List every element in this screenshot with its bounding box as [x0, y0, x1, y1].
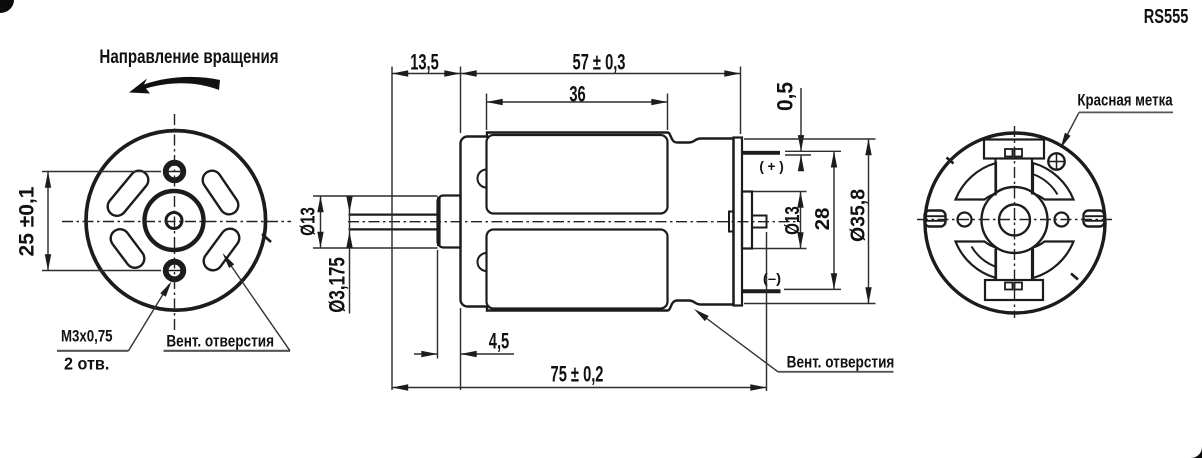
- svg-text:Вент. отверстия: Вент. отверстия: [787, 353, 895, 372]
- front bushing (4,5 flange): [438, 196, 461, 248]
- dimension Ø35,8 (body diameter): [744, 139, 876, 304]
- svg-text:M3x0,75: M3x0,75: [61, 327, 113, 346]
- rear view vertical centerline: [1014, 126, 1016, 318]
- vent slot upper-right: [212, 180, 229, 205]
- fan opening upper-right with spring arc: [1033, 163, 1074, 200]
- dimension Ø3,175 (shaft): [349, 202, 351, 314]
- svg-text:Ø13: Ø13: [781, 206, 804, 235]
- svg-text:( + ): ( + ): [759, 159, 783, 174]
- rear center hole: [999, 205, 1030, 236]
- fan opening upper-left: [956, 163, 997, 200]
- dimension 25 ±0,1: [42, 172, 161, 271]
- side view: motor body (middle): [349, 133, 781, 311]
- dimension 0,5 (terminal thickness): [785, 88, 841, 171]
- front view: motor face (left): [86, 131, 271, 311]
- svg-text:Ø35,8: Ø35,8: [847, 189, 870, 242]
- flat face lower rectangle: [487, 230, 668, 309]
- inner bearing bump at rear: [729, 212, 734, 232]
- dimension 36: [487, 94, 668, 131]
- dimension 75 ± 0,2: [392, 232, 767, 391]
- vent slot upper-left: [117, 180, 139, 207]
- svg-text:25 ±0,1: 25 ±0,1: [16, 186, 39, 256]
- rear endcap: [734, 138, 743, 306]
- svg-text:Направление вращения: Направление вращения: [99, 45, 278, 67]
- rim tick upper-left: [947, 158, 954, 164]
- top brush tab: [984, 140, 1044, 159]
- dimension 4,5: [414, 250, 514, 390]
- rim tick right: [262, 234, 271, 242]
- vent slot lower-left: [120, 239, 135, 259]
- rear view: motor endcap (right): [925, 133, 1106, 313]
- red mark circle: [1048, 153, 1064, 169]
- front view horizontal centerline: [62, 221, 291, 223]
- terminal tab left: [925, 211, 946, 227]
- front view boss circle: [145, 191, 204, 250]
- screw boss left: [958, 213, 972, 227]
- dimension Ø13 (rear boss): [753, 192, 807, 249]
- svg-text:Вент. отверстия: Вент. отверстия: [166, 332, 274, 351]
- flat face upper rectangle: [487, 135, 668, 214]
- mounting hole top: [166, 163, 184, 181]
- rear outer circle: [925, 133, 1105, 313]
- terminal (-): [741, 289, 781, 293]
- screw boss right: [1055, 213, 1069, 227]
- fan opening lower-right: [1033, 242, 1074, 279]
- dimension Ø13 (front bushing): [313, 196, 438, 248]
- svg-text:Красная метка: Красная метка: [1077, 91, 1173, 110]
- shaft: [349, 214, 438, 216]
- svg-text:RS555: RS555: [1144, 5, 1189, 28]
- dimension 13,5: [392, 67, 461, 391]
- rotation arrow (curved swoosh): [129, 77, 220, 94]
- dimension 57 ± 0,3: [461, 67, 741, 135]
- svg-text:Ø3,175: Ø3,175: [325, 257, 350, 313]
- bump on upper flat: [478, 170, 487, 188]
- svg-text:57 ± 0,3: 57 ± 0,3: [573, 50, 626, 75]
- front view shaft center hole: [166, 213, 182, 229]
- svg-text:4,5: 4,5: [489, 329, 509, 354]
- vent slot lower-right: [213, 238, 230, 261]
- motor can outline: [461, 133, 734, 311]
- svg-text:Ø13: Ø13: [296, 207, 319, 236]
- svg-text:(–): (–): [763, 272, 781, 287]
- fan opening lower-left with spring arc: [956, 242, 997, 279]
- svg-text:36: 36: [569, 82, 585, 107]
- brush bar vertical lines: [994, 159, 996, 196]
- dimension 28 (terminal spacing): [784, 151, 841, 289]
- rear bearing circle: [982, 187, 1048, 253]
- svg-text:28: 28: [811, 208, 834, 231]
- rear shaft stub: [752, 216, 767, 228]
- svg-text:75 ± 0,2: 75 ± 0,2: [551, 362, 604, 387]
- svg-text:13,5: 13,5: [410, 50, 439, 75]
- side view centerline: [348, 221, 800, 223]
- rim tick lower-right: [1071, 274, 1078, 280]
- front view vertical centerline: [174, 114, 176, 333]
- corner artifact bottom-right: [1191, 447, 1202, 458]
- leader to lower-right vent slot: [225, 257, 290, 351]
- terminal tab right: [1084, 211, 1105, 227]
- leader to red mark: [1063, 112, 1079, 143]
- front view outer circle: [86, 131, 266, 311]
- corner artifact top-left: [0, 0, 14, 13]
- svg-text:2 отв.: 2 отв.: [64, 354, 109, 374]
- bottom brush tab: [985, 280, 1043, 300]
- rear view horizontal centerline: [917, 219, 1112, 221]
- terminal (+): [741, 151, 780, 155]
- leader to rear vent notch: [698, 312, 778, 372]
- svg-text:0,5: 0,5: [773, 82, 798, 111]
- rear boss Ø13: [742, 192, 752, 249]
- leader to bottom mounting hole: [129, 285, 170, 351]
- mounting hole bottom: [166, 262, 184, 280]
- bump on lower flat: [478, 253, 487, 271]
